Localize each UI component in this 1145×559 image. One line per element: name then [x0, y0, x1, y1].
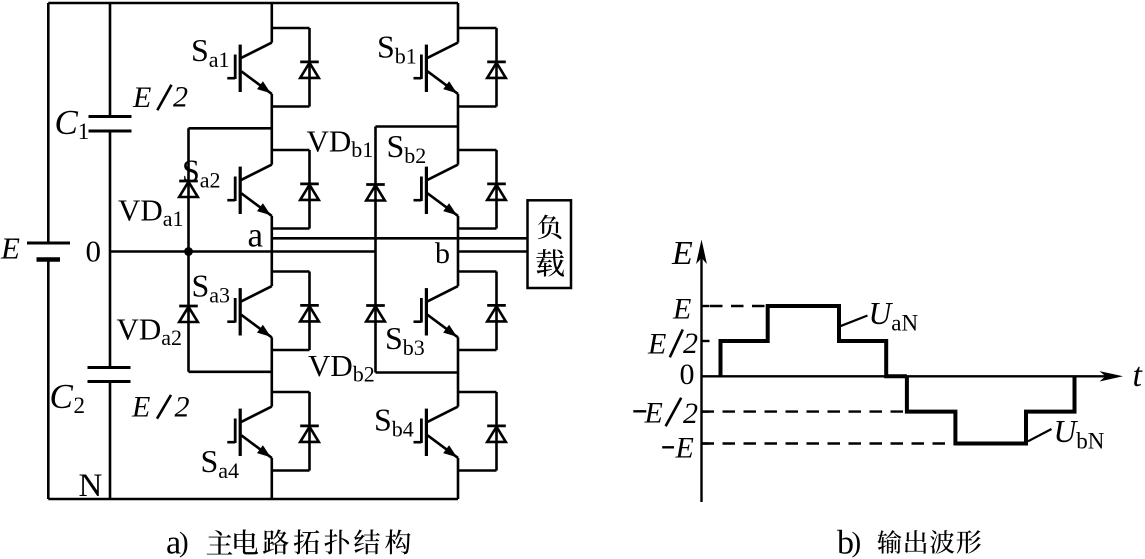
svg-text:2: 2 [683, 397, 698, 430]
transistor Sa4 (IGBT) with freewheel diode [227, 392, 318, 471]
diode VDb2 [366, 306, 385, 322]
svg-text:0: 0 [680, 358, 695, 391]
tick marks on voltage axis [702, 306, 710, 444]
label 载 (load) [536, 249, 564, 276]
battery E [27, 243, 70, 260]
svg-text:b: b [435, 237, 450, 270]
transistor Sb2 (IGBT) with freewheel diode [414, 150, 506, 229]
waveform UbN (phase b output voltage) [907, 376, 1075, 443]
svg-text:E: E [647, 327, 666, 360]
dashed line at E level [710, 305, 767, 307]
wire bottom rail [48, 498, 458, 501]
diode VDb1 [366, 185, 385, 201]
svg-text:): ) [179, 527, 189, 559]
svg-text:): ) [852, 527, 862, 559]
svg-text:C: C [50, 377, 74, 416]
wire capacitor rail segment 3 [109, 382, 112, 500]
wire capacitor rail segment 2 [109, 131, 112, 368]
svg-text:a: a [248, 216, 264, 255]
capacitor C2 [88, 368, 131, 382]
svg-text:2: 2 [683, 327, 698, 360]
dashed line at -E level [702, 442, 955, 444]
wire output b to load [458, 250, 528, 253]
waveform vertical axis [700, 246, 702, 502]
wire clamp branch b lower [376, 371, 459, 374]
wire clamp branch a lower [189, 370, 272, 373]
svg-text:E: E [132, 81, 151, 114]
diode VDa2 [179, 306, 198, 322]
wire 0 bus [110, 250, 376, 253]
caption b) 输出波形 [837, 525, 981, 559]
wire clamp branch b upper [376, 125, 459, 128]
svg-text:E: E [675, 432, 694, 465]
svg-text:E: E [644, 397, 663, 430]
svg-text:0: 0 [86, 234, 102, 269]
svg-text:2: 2 [74, 393, 86, 418]
label UbN with pointer [1028, 414, 1105, 453]
load box [528, 200, 572, 288]
wire clamp leg b vertical [374, 127, 377, 373]
wire clamp leg a vertical [187, 128, 190, 371]
transistor Sa3 (IGBT) with freewheel diode [227, 272, 318, 351]
diode VDa1 [179, 181, 198, 197]
wire left rail upper [47, 3, 50, 243]
transistor Sb4 (IGBT) with freewheel diode [414, 392, 506, 471]
svg-text:1: 1 [78, 119, 90, 144]
waveform horizontal axis (t) [702, 375, 1113, 377]
svg-text:N: N [79, 468, 103, 504]
svg-text:t: t [1133, 357, 1144, 394]
wire phase-b leg vertical [457, 3, 460, 499]
caption a) 主电路拓扑结构 [166, 525, 411, 559]
transistor Sb1 (IGBT) with freewheel diode [414, 28, 506, 107]
node junction dot (0 bus / clamp leg a) [184, 247, 193, 256]
label UaN with pointer [840, 296, 918, 335]
wire top rail [48, 2, 458, 5]
wire capacitor rail segment 1 [109, 3, 112, 117]
svg-text:E: E [672, 292, 691, 325]
capacitor C1 [89, 117, 132, 132]
wire output a to load [272, 237, 528, 240]
label 负 (load) [538, 215, 562, 240]
svg-text:E: E [0, 231, 20, 266]
svg-text:E: E [671, 235, 693, 272]
waveform UaN (phase a output voltage) [721, 306, 907, 376]
label -E/2 level [633, 410, 646, 412]
wire left rail lower [47, 260, 50, 500]
svg-text:C: C [55, 103, 79, 142]
wire clamp branch a upper [189, 127, 272, 130]
transistor Sb3 (IGBT) with freewheel diode [414, 272, 506, 351]
svg-text:2: 2 [173, 81, 188, 114]
transistor Sa1 (IGBT) with freewheel diode [227, 28, 318, 107]
svg-text:2: 2 [175, 390, 190, 423]
label -E level [662, 446, 674, 448]
dashed line at -E/2 level [702, 410, 906, 412]
svg-text:E: E [131, 391, 150, 424]
wire phase-a leg vertical [270, 3, 273, 499]
transistor Sa2 (IGBT) with freewheel diode [227, 150, 318, 229]
